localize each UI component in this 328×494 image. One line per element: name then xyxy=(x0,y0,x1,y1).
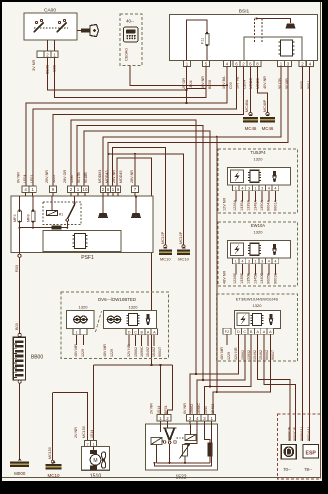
svg-text:3V NR: 3V NR xyxy=(32,60,36,71)
injection box 1320 b xyxy=(103,310,156,328)
BSI1 internal supply loop xyxy=(187,20,208,60)
PSF1 ground 2 xyxy=(135,196,137,213)
svg-text:1229: 1229 xyxy=(110,349,114,357)
connection unit 40- CE0A0 xyxy=(120,14,142,66)
PSF1 pin 1 xyxy=(111,186,116,192)
svg-text:4: 4 xyxy=(268,260,270,264)
svg-text:1226A: 1226A xyxy=(233,200,237,211)
svg-text:26V NR: 26V NR xyxy=(45,170,49,183)
diesel engines DV6/DW10BTED xyxy=(61,292,168,358)
PSF1 output to battery xyxy=(19,253,21,255)
svg-text:3: 3 xyxy=(248,260,250,264)
ESP control unit xyxy=(277,414,320,479)
svg-text:MF8: MF8 xyxy=(27,214,31,222)
svg-text:2: 2 xyxy=(86,442,88,446)
wire BE08 CA00 to BSI1 pin1 xyxy=(48,58,187,91)
svg-text:9001E: 9001E xyxy=(273,273,277,284)
CA00 pin 1 xyxy=(37,51,44,58)
svg-text:26V NR: 26V NR xyxy=(112,170,116,183)
PSF1 pin 9 xyxy=(50,186,57,192)
wire 1514 to 1522 pin1 xyxy=(160,365,162,415)
wire BSI pin6 to MC46A xyxy=(250,67,252,113)
svg-text:1: 1 xyxy=(235,260,237,264)
svg-text:MC150: MC150 xyxy=(82,426,86,438)
svg-text:LF04: LF04 xyxy=(23,175,27,183)
svg-text:9005E: 9005E xyxy=(267,273,271,284)
svg-text:LB04: LB04 xyxy=(189,80,193,89)
PSF1 pin 1 xyxy=(29,186,36,192)
relay R1 dashed box xyxy=(43,202,81,225)
svg-text:48V MR: 48V MR xyxy=(220,347,224,360)
BSI1 pin 6 xyxy=(233,60,240,66)
relay switch xyxy=(67,205,74,220)
svg-text:1335A: 1335A xyxy=(240,200,244,211)
svg-text:2V GR: 2V GR xyxy=(182,78,186,89)
svg-text:6V NR: 6V NR xyxy=(183,403,187,414)
switch link dashed xyxy=(34,27,68,29)
wire BSI1 pin1 drop xyxy=(186,67,188,103)
svg-text:3: 3 xyxy=(261,260,263,264)
svg-text:13932: 13932 xyxy=(247,350,251,360)
CA00 pin 3 xyxy=(51,51,58,58)
svg-text:MDD45: MDD45 xyxy=(119,171,123,184)
svg-text:1590: 1590 xyxy=(204,406,208,414)
svg-text:1340E: 1340E xyxy=(260,273,264,284)
svg-text:MDD43: MDD43 xyxy=(105,171,109,184)
DV6 pins b xyxy=(126,329,132,335)
svg-text:A: A xyxy=(147,331,150,335)
BSI1 pin 3 xyxy=(285,60,292,66)
PSF1 pin 9 xyxy=(116,186,121,192)
svg-text:1: 1 xyxy=(255,187,257,191)
svg-text:PSF1: PSF1 xyxy=(81,255,94,261)
svg-text:1514: 1514 xyxy=(157,406,161,414)
svg-text:1: 1 xyxy=(92,442,94,446)
bus MDD43 to ground xyxy=(113,148,166,245)
engine unit ET3/EW10J4/EW10J4S xyxy=(217,294,298,361)
wire MC150 branch xyxy=(52,393,87,441)
bus 9017B xyxy=(103,67,281,186)
svg-text:9004A: 9004A xyxy=(267,200,271,211)
PSF1 pin 7 xyxy=(132,186,139,192)
svg-text:48V NR: 48V NR xyxy=(223,270,227,284)
svg-text:BB00: BB00 xyxy=(31,355,43,361)
svg-text:1514: 1514 xyxy=(90,430,94,438)
svg-text:15492: 15492 xyxy=(211,404,215,414)
svg-text:TU5JP4: TU5JP4 xyxy=(250,150,266,155)
svg-text:R03: R03 xyxy=(15,265,19,272)
wire MC150 to ground xyxy=(51,393,53,460)
svg-text:9001A/U: 9001A/U xyxy=(307,427,311,441)
svg-text:10: 10 xyxy=(83,187,88,192)
ET3 pins xyxy=(235,328,241,334)
CA00 pin 2 xyxy=(44,51,51,58)
wire 1514 to 1522 pin2 xyxy=(168,365,173,415)
svg-text:MC46: MC46 xyxy=(245,126,257,131)
svg-text:1226E: 1226E xyxy=(233,273,237,284)
bus BE08 xyxy=(33,67,237,186)
1522 thermal switch V xyxy=(165,428,170,441)
1522 resistor xyxy=(208,443,213,457)
svg-text:1225: 1225 xyxy=(52,175,56,183)
svg-text:MC10: MC10 xyxy=(160,257,171,262)
svg-text:MC46A: MC46A xyxy=(245,99,249,112)
bus 1590 xyxy=(71,120,196,374)
1522 internal wiring xyxy=(156,445,158,463)
svg-text:1348A: 1348A xyxy=(253,200,257,211)
svg-text:90017: 90017 xyxy=(271,350,275,360)
bus LB04 xyxy=(26,67,227,186)
PSF1 pin 6 xyxy=(106,186,111,192)
BSI1 pin 5 xyxy=(203,60,210,66)
engine fusebox PSF1 xyxy=(11,196,153,253)
wire BB00 to M000 xyxy=(19,383,21,459)
svg-text:70--: 70-- xyxy=(283,467,291,472)
bus MDD45 to ground xyxy=(109,154,184,245)
BSI1 internal ground wire xyxy=(257,19,291,24)
svg-text:9018B: 9018B xyxy=(84,172,88,183)
svg-text:1522: 1522 xyxy=(175,475,186,481)
PSF1 ground 1 xyxy=(102,196,104,213)
icon plate xyxy=(124,27,139,42)
svg-text:MC46P: MC46P xyxy=(263,99,267,112)
svg-text:1350E: 1350E xyxy=(247,273,251,284)
svg-text:1229: 1229 xyxy=(227,352,231,360)
PSF1 internal wire xyxy=(20,227,50,229)
svg-text:1546Z: 1546Z xyxy=(152,346,156,357)
PSF1 fuse MF4 xyxy=(19,196,21,210)
fan blades xyxy=(101,452,105,460)
engine unit EW10A xyxy=(218,222,298,286)
svg-text:48V MR: 48V MR xyxy=(74,344,78,357)
BSI1 pin 1 xyxy=(184,60,191,66)
wire 1514 horizontal xyxy=(94,364,173,366)
wire CE0A0 junction xyxy=(226,84,228,86)
BSI1 pin 2 xyxy=(240,60,247,66)
bus 40V xyxy=(84,131,210,387)
BSI1 IC xyxy=(281,40,293,56)
bus MDB xyxy=(77,126,203,381)
svg-text:B: B xyxy=(250,330,253,334)
svg-text:F2: F2 xyxy=(225,330,229,334)
ground MC46 A xyxy=(249,114,253,116)
svg-text:1320: 1320 xyxy=(253,303,263,308)
svg-text:D: D xyxy=(128,331,131,335)
BSI1 pin 2 xyxy=(299,60,306,66)
svg-text:1345E: 1345E xyxy=(253,273,257,284)
svg-text:C00: C00 xyxy=(229,82,233,89)
svg-text:1: 1 xyxy=(255,260,257,264)
svg-text:9001T: 9001T xyxy=(158,346,162,357)
PSF1 pin 2 xyxy=(101,186,106,192)
drop to 1522 pin1 xyxy=(216,137,218,392)
svg-text:B: B xyxy=(140,331,143,335)
svg-text:C: C xyxy=(243,330,246,334)
svg-text:MF4: MF4 xyxy=(13,214,17,222)
svg-text:48V MR: 48V MR xyxy=(103,344,107,357)
svg-text:4: 4 xyxy=(274,260,276,264)
wire ET3 to ESP 9003C xyxy=(264,334,296,441)
svg-text:1549Z: 1549Z xyxy=(146,346,150,357)
svg-text:ESP: ESP xyxy=(306,450,317,456)
ground M000 xyxy=(18,459,22,461)
svg-text:EW10A: EW10A xyxy=(251,223,265,228)
switch contact b xyxy=(58,21,60,23)
svg-text:32V NR: 32V NR xyxy=(234,347,238,360)
ground MC10 a xyxy=(163,247,167,249)
wire CE0A0 to bus xyxy=(130,66,227,86)
wire 9000 BSI to ESP xyxy=(302,67,304,441)
PSF1 pin 1 xyxy=(75,186,82,192)
ignition switch CA00 xyxy=(24,13,77,40)
svg-text:MC10P: MC10P xyxy=(161,231,165,244)
wire ET3 to 1522 pin1b xyxy=(213,334,271,414)
1522 wires top xyxy=(160,421,162,432)
svg-text:3: 3 xyxy=(261,187,263,191)
svg-text:78--: 78-- xyxy=(304,467,312,472)
PSF1 fuse MF8 xyxy=(32,196,34,210)
ESP icon box xyxy=(281,445,296,460)
svg-text:MC150: MC150 xyxy=(48,447,52,459)
svg-text:1339A: 1339A xyxy=(247,200,251,211)
ESP text box xyxy=(303,445,319,458)
fuse F11 xyxy=(206,32,208,47)
bus 9018B xyxy=(108,67,288,186)
engine unit TU5JP4 xyxy=(218,149,298,213)
svg-text:LF01: LF01 xyxy=(30,175,34,183)
PSF1 fuse horizontal xyxy=(52,225,62,229)
drop PSF1 pin7 xyxy=(134,154,136,186)
BSI1 inner module box xyxy=(244,37,302,60)
wire ET3 to 1522 pin2 xyxy=(190,334,239,414)
svg-text:MC10: MC10 xyxy=(178,257,189,262)
switch contact a xyxy=(35,21,37,23)
svg-text:1320: 1320 xyxy=(254,156,264,161)
svg-text:1335E: 1335E xyxy=(240,273,244,284)
wire BSI pin8 to MC46P xyxy=(258,67,268,113)
BSI1 pin 4 xyxy=(307,60,314,66)
svg-text:1: 1 xyxy=(235,187,237,191)
dashed internal links xyxy=(254,19,256,44)
glow plug box 1320 a xyxy=(67,310,95,328)
svg-text:15462: 15462 xyxy=(259,350,263,360)
svg-text:9001A: 9001A xyxy=(273,200,277,211)
svg-text:9006A/U: 9006A/U xyxy=(300,427,304,441)
svg-text:4: 4 xyxy=(241,187,243,191)
motor M xyxy=(93,447,95,451)
svg-text:16V NR: 16V NR xyxy=(201,76,205,89)
svg-text:1698C: 1698C xyxy=(197,403,201,414)
svg-text:B03: B03 xyxy=(15,323,19,330)
PSF1 pin 4 xyxy=(22,186,29,192)
svg-text:12V NR: 12V NR xyxy=(223,197,227,211)
separator slash xyxy=(96,311,102,332)
BSI1 pin 6 xyxy=(247,60,254,66)
svg-text:C: C xyxy=(134,331,137,335)
svg-text:6V NR: 6V NR xyxy=(17,172,21,183)
svg-text:15492: 15492 xyxy=(253,350,257,360)
1522 adjustable resistor xyxy=(183,445,188,457)
relay wires xyxy=(51,196,53,211)
svg-text:BF01: BF01 xyxy=(164,405,168,414)
svg-text:1350A: 1350A xyxy=(260,200,264,211)
wire 9001 BSI to ESP xyxy=(309,67,311,441)
svg-text:MDDM1: MDDM1 xyxy=(98,169,102,183)
svg-text:M000: M000 xyxy=(14,471,26,476)
svg-text:2V NR: 2V NR xyxy=(150,403,154,414)
wire C00 CA00 to BSI1 pin5 xyxy=(55,58,206,98)
svg-text:1320: 1320 xyxy=(79,305,89,310)
svg-text:A: A xyxy=(263,330,266,334)
svg-text:4: 4 xyxy=(268,187,270,191)
svg-text:D: D xyxy=(237,330,240,334)
svg-text:40--: 40-- xyxy=(126,19,134,24)
wire ET3 to 1522 pin4 xyxy=(197,334,245,414)
svg-text:MC10P: MC10P xyxy=(179,231,183,244)
body controller BSI1 xyxy=(170,15,318,61)
wire ET3 to 1522 pin3 xyxy=(204,334,251,414)
svg-text:CE0A0: CE0A0 xyxy=(124,48,129,61)
link seg xyxy=(187,88,206,90)
svg-text:15662: 15662 xyxy=(134,347,138,357)
1522 relay coil left xyxy=(151,438,162,445)
svg-text:4: 4 xyxy=(241,260,243,264)
svg-text:DV6---/DW10BTED: DV6---/DW10BTED xyxy=(98,297,136,302)
svg-text:M: M xyxy=(93,458,97,464)
wire ET3 to ESP 9000C xyxy=(258,334,290,441)
svg-text:9003C/B: 9003C/B xyxy=(293,426,297,441)
svg-text:9000C/B: 9000C/B xyxy=(288,426,292,441)
ET3 pin F2 xyxy=(223,328,231,334)
svg-text:9000Z: 9000Z xyxy=(265,349,269,360)
svg-text:1590: 1590 xyxy=(70,175,74,183)
svg-text:MC10: MC10 xyxy=(47,473,60,478)
frame right xyxy=(320,2,322,478)
ground MC46 P xyxy=(266,114,270,116)
bus 1225 xyxy=(53,67,244,186)
key symbol xyxy=(77,30,81,32)
svg-text:28V NR: 28V NR xyxy=(130,170,134,183)
svg-text:MC46: MC46 xyxy=(262,126,274,131)
svg-text:A: A xyxy=(269,330,272,334)
frame bottom xyxy=(2,477,321,479)
BSI1 internal ground xyxy=(286,24,296,29)
svg-text:1320: 1320 xyxy=(129,305,139,310)
svg-text:BSI1: BSI1 xyxy=(239,9,250,15)
svg-text:F11: F11 xyxy=(201,38,205,44)
svg-text:16V BA: 16V BA xyxy=(222,76,226,89)
svg-text:40V NR: 40V NR xyxy=(263,76,267,89)
ground MC10 lower xyxy=(52,461,56,463)
svg-text:1229: 1229 xyxy=(81,349,85,357)
svg-text:4: 4 xyxy=(274,187,276,191)
svg-text:R1: R1 xyxy=(59,213,64,217)
PSF1 inner module xyxy=(43,231,121,252)
svg-text:CA00: CA00 xyxy=(44,8,56,14)
1522 relay coil right xyxy=(185,435,196,441)
BSI1 pin 8 xyxy=(254,60,261,66)
ground MC10 b xyxy=(182,247,186,249)
bus 1514 from PSF1 xyxy=(117,158,152,365)
PSF1 pin 2 xyxy=(68,186,75,192)
DV6 pins a xyxy=(73,329,80,335)
svg-text:ET3/EW10J4/EW10J4S: ET3/EW10J4/EW10J4S xyxy=(236,297,279,302)
wire 1514 to motor 1510 xyxy=(93,365,95,441)
BSI1 pin 4 xyxy=(224,60,231,66)
svg-text:1: 1 xyxy=(75,331,77,335)
svg-text:32V NR: 32V NR xyxy=(127,344,131,357)
svg-text:9017B: 9017B xyxy=(77,172,81,183)
svg-text:1510: 1510 xyxy=(90,474,102,480)
relay coil xyxy=(47,211,58,216)
svg-text:BE08: BE08 xyxy=(208,80,212,89)
svg-text:1320: 1320 xyxy=(254,229,264,234)
svg-text:28V GR: 28V GR xyxy=(63,170,67,183)
BSI1 pin 1 xyxy=(278,60,285,66)
CA00 pin stubs xyxy=(47,40,49,51)
PSF1 pin 10 xyxy=(82,186,89,192)
svg-text:3: 3 xyxy=(248,187,250,191)
svg-text:1699C: 1699C xyxy=(140,346,144,357)
svg-text:15662: 15662 xyxy=(190,404,194,414)
PSF1 IC xyxy=(75,234,86,249)
svg-text:2V NR: 2V NR xyxy=(74,427,78,438)
